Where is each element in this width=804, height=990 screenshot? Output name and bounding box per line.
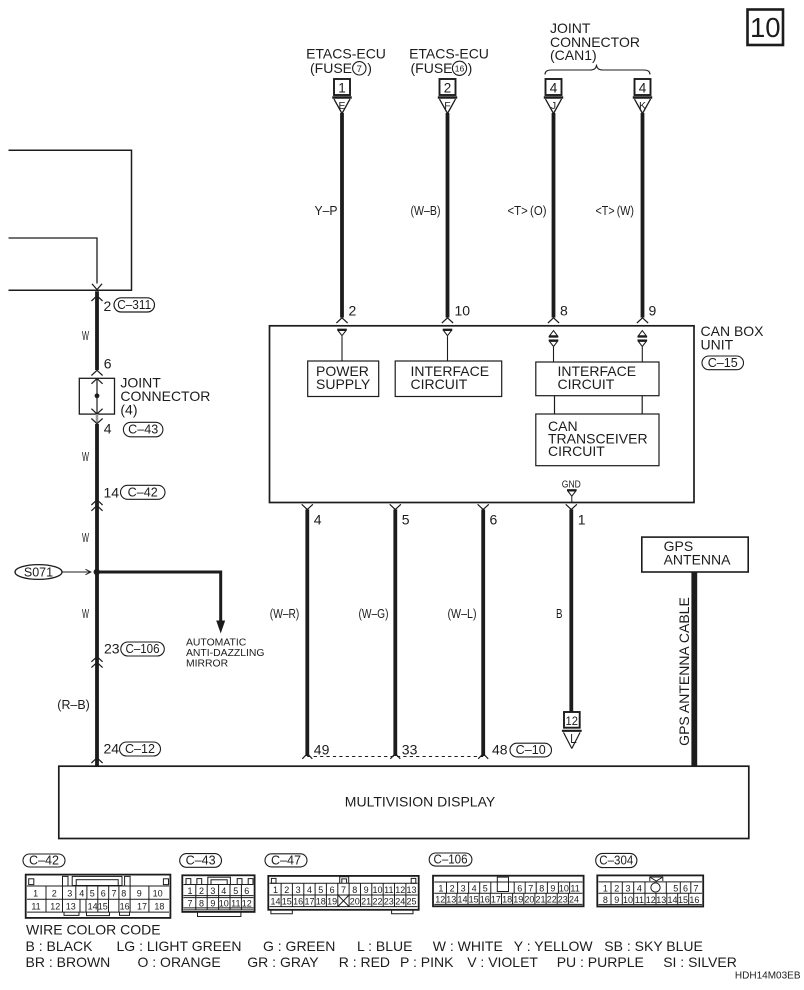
svg-text:19: 19 bbox=[513, 895, 523, 905]
svg-text:2: 2 bbox=[104, 298, 112, 314]
svg-text:15: 15 bbox=[282, 897, 292, 907]
label JOINT CONNECTOR (4) bbox=[120, 375, 210, 418]
svg-text:16: 16 bbox=[689, 895, 699, 905]
svg-text:20: 20 bbox=[524, 895, 534, 905]
svg-text:7: 7 bbox=[111, 889, 116, 899]
svg-text:2: 2 bbox=[284, 885, 289, 895]
svg-text:24: 24 bbox=[395, 897, 405, 907]
svg-text:1: 1 bbox=[603, 884, 608, 894]
block CAN TRANSCEIVER CIRCUIT bbox=[536, 414, 659, 466]
wire Y-P from E to pin 2 bbox=[336, 113, 347, 323]
svg-text:C–43: C–43 bbox=[128, 423, 158, 437]
connector C-42 pin numbers bbox=[31, 889, 164, 912]
svg-text:33: 33 bbox=[402, 742, 418, 758]
svg-text:W: W bbox=[82, 328, 89, 343]
svg-text:16: 16 bbox=[455, 63, 465, 73]
svg-text:C–106: C–106 bbox=[126, 642, 160, 656]
svg-text:12: 12 bbox=[50, 902, 60, 912]
svg-text:8: 8 bbox=[539, 884, 544, 894]
svg-text:4: 4 bbox=[307, 885, 312, 895]
svg-text:6: 6 bbox=[683, 884, 688, 894]
svg-text:6: 6 bbox=[244, 886, 249, 896]
wire W-L pin6 to pin48 bbox=[478, 510, 488, 759]
connector label C-311 bbox=[114, 298, 155, 312]
svg-text:(FUSE: (FUSE bbox=[310, 60, 352, 76]
svg-text:4: 4 bbox=[472, 884, 477, 894]
svg-text:2: 2 bbox=[444, 80, 452, 95]
svg-text:1: 1 bbox=[187, 886, 192, 896]
svg-text:C–311: C–311 bbox=[117, 298, 151, 312]
pin 6 exit chevron bbox=[478, 504, 489, 509]
svg-text:6: 6 bbox=[490, 512, 498, 528]
branch wire to mirror bbox=[97, 572, 225, 634]
svg-text:24: 24 bbox=[104, 741, 120, 757]
connector terminal 12 bbox=[562, 712, 582, 749]
joint connector box bbox=[79, 378, 114, 414]
internal wire from off-page bbox=[9, 238, 103, 290]
label ETACS-ECU (FUSE 7) bbox=[306, 46, 386, 77]
connector label C-42 pinout bbox=[23, 853, 65, 867]
wire W-B from F to pin 10 bbox=[442, 113, 453, 323]
svg-text:J: J bbox=[551, 100, 556, 112]
svg-text:UNIT: UNIT bbox=[701, 337, 734, 353]
svg-text:13: 13 bbox=[656, 895, 666, 905]
bidirectional triangles pin 8 bbox=[549, 331, 559, 362]
label JOINT CONNECTOR (CAN1) bbox=[550, 20, 640, 63]
wire interface to transceiver right bbox=[641, 396, 643, 414]
junction dot S071 bbox=[94, 569, 100, 575]
svg-text:(R–B): (R–B) bbox=[57, 697, 90, 712]
svg-text:4: 4 bbox=[79, 889, 84, 899]
svg-text:24: 24 bbox=[569, 895, 579, 905]
svg-text:GND: GND bbox=[562, 478, 581, 490]
svg-text:11: 11 bbox=[570, 884, 579, 894]
label CAN BOX UNIT bbox=[701, 323, 765, 353]
connector label C-15 bbox=[702, 356, 744, 370]
svg-text:2: 2 bbox=[199, 886, 204, 896]
wire CAN from J to pin 8 bbox=[548, 113, 559, 323]
svg-text:14: 14 bbox=[457, 895, 467, 905]
svg-text:<T> (O): <T> (O) bbox=[508, 203, 547, 218]
svg-text:11: 11 bbox=[384, 885, 393, 895]
svg-text:2: 2 bbox=[450, 884, 455, 894]
svg-text:22: 22 bbox=[372, 897, 382, 907]
svg-text:C–304: C–304 bbox=[599, 854, 633, 868]
connector C-304 pinout drawing bbox=[597, 875, 703, 906]
svg-text:9: 9 bbox=[364, 885, 369, 895]
bidirectional triangles pin 9 bbox=[638, 331, 648, 362]
svg-text:48: 48 bbox=[492, 742, 508, 758]
svg-text:C–12: C–12 bbox=[125, 742, 155, 756]
svg-text:9: 9 bbox=[550, 884, 555, 894]
wire CAN from K to pin 9 bbox=[637, 113, 648, 323]
connector C-43 pinout drawing bbox=[182, 875, 254, 916]
pin 4 exit chevron bbox=[302, 504, 313, 509]
svg-text:C–43: C–43 bbox=[186, 853, 216, 867]
MULTIVISION DISPLAY box bbox=[59, 766, 749, 838]
svg-text:11: 11 bbox=[231, 899, 240, 909]
svg-text:6: 6 bbox=[517, 884, 522, 894]
svg-text:11: 11 bbox=[31, 902, 40, 912]
svg-text:22: 22 bbox=[547, 895, 557, 905]
svg-text:(W–R): (W–R) bbox=[270, 606, 300, 621]
svg-text:20: 20 bbox=[350, 897, 360, 907]
svg-text:W: W bbox=[82, 449, 89, 464]
svg-text:3: 3 bbox=[210, 886, 215, 896]
wire W main left bbox=[91, 291, 102, 370]
svg-text:7: 7 bbox=[357, 64, 362, 75]
connector label C-304 pinout bbox=[596, 853, 637, 867]
svg-text:15: 15 bbox=[98, 902, 108, 912]
svg-text:B : BLACKLG : LIGHT GREENG : G: B : BLACKLG : LIGHT GREENG : GREENL : BL… bbox=[26, 938, 703, 954]
svg-text:14: 14 bbox=[88, 902, 98, 912]
svg-text:6: 6 bbox=[104, 356, 112, 372]
svg-text:12: 12 bbox=[566, 716, 579, 728]
svg-text:WIRE COLOR CODE: WIRE COLOR CODE bbox=[26, 922, 161, 938]
svg-text:17: 17 bbox=[491, 895, 501, 905]
svg-text:18: 18 bbox=[316, 897, 326, 907]
svg-text:ANTI-DAZZLING: ANTI-DAZZLING bbox=[186, 648, 265, 659]
wire W-R pin4 to pin49 bbox=[302, 510, 312, 759]
svg-text:GPS ANTENNA CABLE: GPS ANTENNA CABLE bbox=[676, 597, 692, 746]
block INTERFACE CIRCUIT right bbox=[536, 362, 659, 396]
svg-text:1: 1 bbox=[33, 889, 38, 899]
connector label C-10 bbox=[510, 743, 552, 757]
wire W to C-42 bbox=[95, 424, 99, 766]
dashed connector line pins 49-33-48 bbox=[307, 756, 483, 758]
svg-text:7: 7 bbox=[187, 899, 192, 909]
svg-text:17: 17 bbox=[137, 902, 147, 912]
svg-text:5: 5 bbox=[90, 889, 95, 899]
connector label C-106 bbox=[121, 642, 165, 656]
input triangle pin 10 bbox=[443, 330, 453, 362]
svg-text:11: 11 bbox=[635, 895, 644, 905]
svg-text:C–42: C–42 bbox=[29, 853, 59, 867]
svg-text:(CAN1): (CAN1) bbox=[550, 47, 597, 63]
svg-text:1: 1 bbox=[273, 885, 278, 895]
svg-text:8: 8 bbox=[560, 303, 568, 319]
svg-text:4: 4 bbox=[637, 884, 642, 894]
svg-text:12: 12 bbox=[395, 885, 405, 895]
svg-text:14: 14 bbox=[270, 897, 280, 907]
brace under JOINT CONNECTOR label bbox=[545, 65, 650, 75]
svg-text:C–42: C–42 bbox=[128, 485, 158, 499]
svg-text:25: 25 bbox=[406, 897, 416, 907]
svg-text:6: 6 bbox=[101, 889, 106, 899]
svg-text:9: 9 bbox=[210, 899, 215, 909]
svg-text:10: 10 bbox=[372, 885, 382, 895]
connector C-43 pin numbers bbox=[187, 886, 251, 909]
svg-text:<T> (W): <T> (W) bbox=[596, 203, 635, 218]
upper-left component box (cut off) bbox=[9, 150, 132, 290]
svg-text:3: 3 bbox=[625, 884, 630, 894]
connector label C-42 bbox=[121, 485, 166, 499]
connector label C-12 bbox=[120, 742, 161, 756]
svg-text:1: 1 bbox=[578, 512, 586, 528]
connector C-106 pin numbers bbox=[435, 884, 580, 905]
svg-text:4: 4 bbox=[104, 421, 112, 437]
double chevron at C-42 bbox=[91, 500, 102, 511]
svg-text:5: 5 bbox=[673, 884, 678, 894]
chevron above joint connector bbox=[91, 370, 102, 375]
input triangle pin 2 bbox=[337, 330, 347, 362]
svg-text:5: 5 bbox=[318, 885, 323, 895]
svg-text:F: F bbox=[444, 100, 450, 112]
svg-text:1: 1 bbox=[438, 884, 443, 894]
svg-text:49: 49 bbox=[314, 742, 330, 758]
svg-text:C–47: C–47 bbox=[271, 853, 301, 867]
svg-text:E: E bbox=[338, 100, 345, 112]
pin 5 exit chevron bbox=[390, 504, 401, 509]
svg-text:10: 10 bbox=[559, 884, 569, 894]
svg-text:8: 8 bbox=[199, 899, 204, 909]
GPS antenna cable wire bbox=[691, 572, 697, 766]
svg-text:23: 23 bbox=[104, 641, 120, 657]
svg-text:13: 13 bbox=[446, 895, 456, 905]
double chevron at C-106 bbox=[91, 657, 102, 668]
svg-text:2: 2 bbox=[349, 303, 357, 319]
svg-text:12: 12 bbox=[435, 895, 445, 905]
label ETACS-ECU (FUSE 16) bbox=[409, 46, 489, 77]
svg-text:12: 12 bbox=[646, 895, 656, 905]
connector C-304 pin numbers bbox=[603, 884, 700, 905]
connector terminal 4/J bbox=[544, 79, 563, 114]
connector terminal 2/F bbox=[438, 79, 457, 114]
svg-text:8: 8 bbox=[352, 885, 357, 895]
svg-text:3: 3 bbox=[296, 885, 301, 895]
svg-text:SUPPLY: SUPPLY bbox=[316, 376, 371, 392]
connector label C-43 pinout bbox=[180, 853, 222, 867]
svg-text:18: 18 bbox=[154, 902, 164, 912]
svg-text:5: 5 bbox=[233, 886, 238, 896]
svg-text:12: 12 bbox=[242, 899, 252, 909]
svg-text:10: 10 bbox=[455, 303, 471, 319]
connector label C-43 bbox=[123, 422, 162, 437]
svg-text:1: 1 bbox=[338, 80, 346, 95]
svg-text:9: 9 bbox=[614, 895, 619, 905]
svg-text:23: 23 bbox=[384, 897, 394, 907]
label AUTOMATIC ANTI-DAZZLING MIRROR bbox=[186, 638, 265, 670]
svg-text:4: 4 bbox=[314, 512, 322, 528]
svg-text:15: 15 bbox=[678, 895, 688, 905]
svg-text:MULTIVISION DISPLAY: MULTIVISION DISPLAY bbox=[345, 794, 496, 810]
svg-text:3: 3 bbox=[461, 884, 466, 894]
svg-text:4: 4 bbox=[550, 80, 558, 95]
svg-text:MIRROR: MIRROR bbox=[186, 659, 229, 670]
wire interface to transceiver left bbox=[554, 396, 556, 414]
block POWER SUPPLY bbox=[308, 361, 379, 397]
svg-text:CIRCUIT: CIRCUIT bbox=[548, 443, 605, 459]
connector C-47 pinout drawing bbox=[268, 876, 418, 914]
svg-text:14: 14 bbox=[667, 895, 677, 905]
svg-text:7: 7 bbox=[341, 885, 346, 895]
connector C-42 pinout drawing bbox=[26, 875, 171, 918]
svg-text:17: 17 bbox=[304, 897, 314, 907]
svg-text:(FUSE: (FUSE bbox=[411, 60, 453, 76]
connector label C-106 pinout bbox=[429, 852, 472, 866]
svg-text:10: 10 bbox=[750, 12, 781, 43]
svg-text:9: 9 bbox=[137, 889, 142, 899]
svg-text:3: 3 bbox=[67, 889, 72, 899]
svg-text:10: 10 bbox=[153, 889, 163, 899]
GND label bbox=[562, 478, 581, 502]
svg-text:16: 16 bbox=[480, 895, 490, 905]
page number box 10 bbox=[748, 10, 784, 46]
svg-text:BR : BROWNO : ORANGEGR : GRAYR: BR : BROWNO : ORANGEGR : GRAYR : REDP : … bbox=[26, 954, 737, 970]
svg-text:13: 13 bbox=[406, 885, 416, 895]
svg-text:C–10: C–10 bbox=[516, 743, 546, 757]
connector terminal 4/K bbox=[633, 79, 652, 114]
svg-text:5: 5 bbox=[483, 884, 488, 894]
svg-text:10: 10 bbox=[219, 899, 229, 909]
svg-text:CIRCUIT: CIRCUIT bbox=[558, 376, 615, 392]
svg-text:21: 21 bbox=[361, 897, 371, 907]
svg-text:(W–G): (W–G) bbox=[359, 606, 389, 621]
svg-text:W: W bbox=[82, 530, 89, 545]
svg-text:18: 18 bbox=[502, 895, 512, 905]
svg-text:4: 4 bbox=[639, 80, 647, 95]
svg-text:16: 16 bbox=[293, 897, 303, 907]
svg-text:): ) bbox=[468, 60, 473, 76]
svg-text:15: 15 bbox=[469, 895, 479, 905]
wire W-G pin5 to pin33 bbox=[390, 510, 400, 759]
svg-text:(4): (4) bbox=[120, 402, 137, 418]
svg-text:CIRCUIT: CIRCUIT bbox=[411, 376, 468, 392]
svg-text:HDH14M03EB: HDH14M03EB bbox=[735, 971, 801, 982]
splice S071 bbox=[15, 565, 91, 580]
svg-text:C–15: C–15 bbox=[708, 356, 738, 370]
svg-text:21: 21 bbox=[535, 895, 545, 905]
connector C-47 pin numbers bbox=[270, 885, 416, 907]
svg-text:2: 2 bbox=[52, 889, 57, 899]
svg-text:Y–P: Y–P bbox=[315, 203, 338, 218]
svg-text:5: 5 bbox=[402, 512, 410, 528]
svg-text:6: 6 bbox=[330, 885, 335, 895]
svg-text:K: K bbox=[639, 100, 646, 112]
svg-text:ANTENNA: ANTENNA bbox=[664, 551, 732, 567]
svg-text:23: 23 bbox=[558, 895, 568, 905]
CAN BOX UNIT box C-15 bbox=[270, 326, 695, 503]
svg-text:B: B bbox=[556, 606, 563, 621]
svg-text:19: 19 bbox=[327, 897, 337, 907]
svg-text:W: W bbox=[82, 606, 89, 621]
svg-text:2: 2 bbox=[614, 884, 619, 894]
pin 1 exit chevron bbox=[566, 504, 577, 509]
svg-text:(W–B): (W–B) bbox=[411, 203, 441, 218]
chevron at C-12 bbox=[91, 758, 102, 763]
svg-text:): ) bbox=[367, 60, 372, 76]
connector C-106 pinout drawing bbox=[433, 876, 584, 907]
block INTERFACE CIRCUIT left bbox=[395, 361, 502, 397]
connector label C-47 pinout bbox=[265, 853, 307, 867]
svg-text:8: 8 bbox=[603, 895, 608, 905]
svg-text:9: 9 bbox=[649, 303, 657, 319]
svg-text:10: 10 bbox=[623, 895, 633, 905]
svg-text:AUTOMATIC: AUTOMATIC bbox=[186, 638, 247, 649]
svg-text:13: 13 bbox=[66, 902, 76, 912]
svg-text:7: 7 bbox=[693, 884, 698, 894]
GPS ANTENNA box bbox=[642, 537, 748, 572]
svg-text:C–106: C–106 bbox=[434, 852, 468, 866]
svg-text:8: 8 bbox=[121, 889, 126, 899]
svg-text:7: 7 bbox=[528, 884, 533, 894]
svg-text:16: 16 bbox=[120, 902, 130, 912]
svg-text:(W–L): (W–L) bbox=[448, 606, 477, 621]
connector terminal 1/E bbox=[332, 79, 351, 114]
svg-text:4: 4 bbox=[221, 886, 226, 896]
svg-text:14: 14 bbox=[104, 485, 120, 501]
chevron below joint connector bbox=[91, 414, 102, 424]
wire B pin1 to terminal 12 bbox=[569, 510, 573, 713]
svg-text:S071: S071 bbox=[24, 566, 53, 580]
